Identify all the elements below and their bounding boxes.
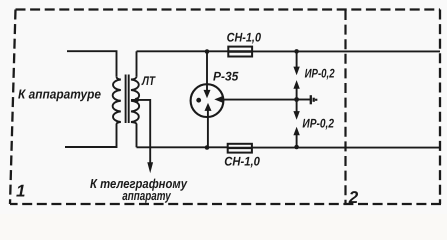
relay arrow down — [204, 90, 211, 98]
wire: top rail, fuse to right border — [252, 50, 440, 52]
svg-text:СН-1,0: СН-1,0 — [224, 154, 260, 168]
arrester upper gap: up arrowhead — [293, 80, 299, 89]
wire: bottom rail, transformer to fuse — [137, 146, 229, 148]
arrester IR-0,2 upper leads — [296, 51, 298, 67]
svg-text:ЛТ: ЛТ — [141, 74, 156, 88]
relay arrow up — [205, 103, 212, 111]
svg-text:К аппаратуре: К аппаратуре — [18, 86, 101, 101]
wire: bottom rail, fuse to right border — [252, 147, 440, 149]
wire: ground lead — [297, 99, 311, 101]
junction: transformer center tap — [135, 98, 140, 103]
wire: relay top lead — [206, 51, 208, 90]
svg-text:2: 2 — [348, 188, 359, 207]
wire: secondary bottom lead — [136, 124, 138, 147]
junction: bottom rail / arrester — [294, 145, 299, 150]
junction: top rail / relay — [205, 49, 210, 54]
svg-text:ИР-0,2: ИР-0,2 — [305, 67, 335, 81]
ground symbol — [310, 95, 312, 104]
relay contact dot — [196, 98, 201, 103]
wire: upper lead to equipment (left) — [67, 51, 117, 77]
wire: lower lead to equipment (left) — [65, 124, 117, 147]
junction: arrester midpoint / ground — [294, 97, 299, 102]
wire: top rail, transformer to fuse — [137, 50, 229, 52]
svg-text:Р-35: Р-35 — [213, 69, 239, 83]
enclosure boundary (dashed frame) — [10, 10, 441, 205]
arrester upper gap: down arrowhead — [293, 67, 299, 76]
svg-text:СН-1,0: СН-1,0 — [227, 31, 261, 45]
wire: center tap branch to telegraph — [131, 100, 150, 163]
junction: top rail / arrester — [294, 49, 299, 54]
wire: relay right lead to arrester midpoint — [222, 99, 297, 101]
arrester lower gap: down arrowhead — [293, 111, 299, 120]
transformer LT secondary winding (loops) — [131, 77, 139, 124]
svg-text:1: 1 — [16, 181, 25, 200]
wire: relay bottom lead — [207, 111, 209, 148]
fuse CH-1,0 bottom — [228, 144, 252, 153]
arrester lower gap: up arrowhead — [293, 127, 299, 136]
relay arrow left — [214, 96, 222, 103]
wire: secondary top lead — [136, 51, 138, 77]
junction: bottom rail / relay — [205, 145, 210, 150]
svg-text:аппарату: аппарату — [122, 188, 171, 203]
relay P-35 body — [191, 84, 224, 117]
arrow to telegraph apparatus — [147, 162, 153, 173]
transformer LT primary winding (loops) — [113, 77, 121, 124]
arrester IR-0,2 lower leads — [296, 100, 298, 112]
transformer LT core — [126, 75, 129, 124]
svg-text:ИР-0,2: ИР-0,2 — [302, 117, 334, 131]
enclosure section divider (dashed) — [344, 10, 346, 204]
fuse CH-1,0 top — [228, 47, 252, 57]
